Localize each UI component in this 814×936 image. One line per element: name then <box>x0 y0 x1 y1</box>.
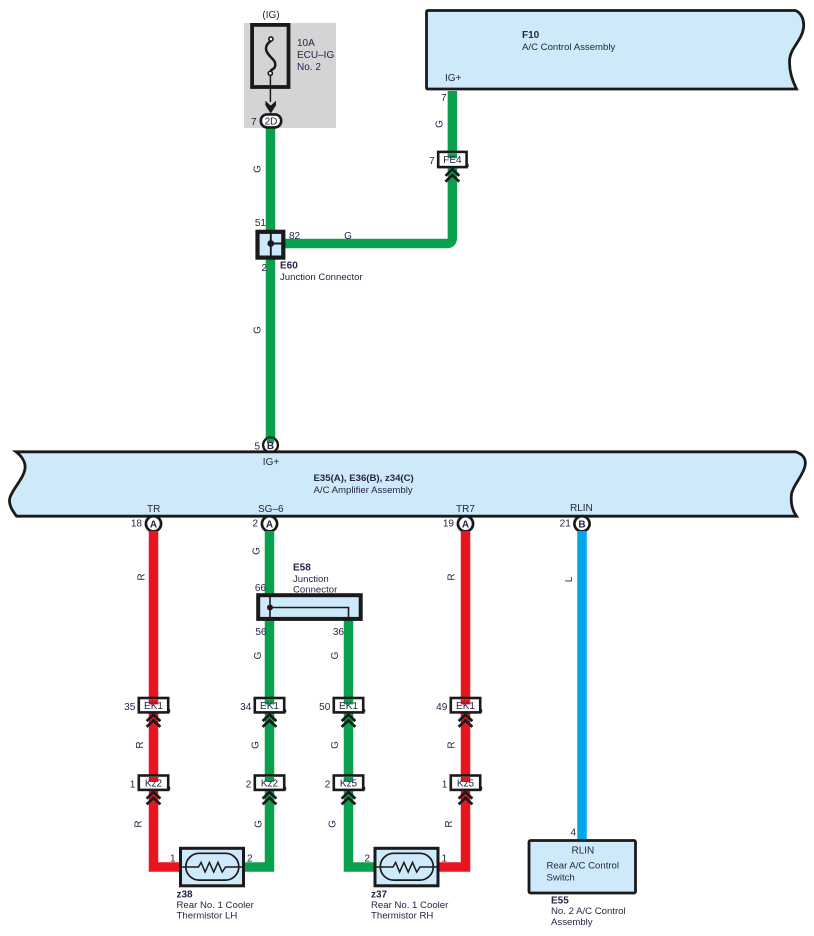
junction connector E58 <box>258 595 361 619</box>
svg-text:G: G <box>253 326 264 334</box>
wire label R (to z37) <box>444 820 455 827</box>
connector 2D pin 7 <box>251 114 281 128</box>
svg-text:FE4: FE4 <box>443 155 462 166</box>
svg-text:B: B <box>578 519 585 530</box>
svg-text:66: 66 <box>255 583 267 594</box>
wire label G (pin36 run lower) <box>330 651 341 659</box>
svg-text:2D: 2D <box>265 116 278 127</box>
wire: red TR7 pin19 down to thermistor z37 pin1 <box>439 531 466 867</box>
svg-text:18: 18 <box>131 518 143 529</box>
E58 pin 36 <box>333 627 345 638</box>
connector EK1 pin 49 <box>436 698 482 713</box>
svg-text:R: R <box>135 741 146 748</box>
connector Kz5 pin 1 <box>442 776 482 791</box>
F10 pin 7 <box>441 93 447 104</box>
svg-text:RLIN: RLIN <box>572 846 595 857</box>
z37 label <box>371 889 449 921</box>
svg-text:IG+: IG+ <box>445 73 462 84</box>
wire: blue RLIN pin21 down to E55 pin4 <box>577 531 587 841</box>
svg-text:1: 1 <box>442 854 448 865</box>
svg-text:7: 7 <box>441 93 447 104</box>
fuse ECU-IG No.2 <box>252 25 288 87</box>
chevron under EK1-34 <box>263 715 277 727</box>
E55 pin 4 <box>570 828 576 839</box>
junction connector E60 <box>258 232 284 258</box>
svg-text:50: 50 <box>319 702 331 713</box>
svg-text:E55: E55 <box>551 895 569 906</box>
svg-text:7: 7 <box>251 117 257 128</box>
wire label G (pin2 run upper) <box>252 547 263 555</box>
svg-text:No. 2: No. 2 <box>297 62 321 73</box>
svg-text:ECU–IG: ECU–IG <box>297 50 334 61</box>
svg-text:G: G <box>344 231 352 242</box>
svg-text:No. 2 A/C Control: No. 2 A/C Control <box>551 906 626 917</box>
svg-text:A: A <box>150 519 157 530</box>
chevron under EK1-49 <box>459 715 473 727</box>
amplifier pin 21 <box>560 518 572 529</box>
z37 pin 2 <box>364 854 370 865</box>
svg-text:Rear A/C Control: Rear A/C Control <box>547 861 620 872</box>
amplifier pin 5 <box>254 442 260 453</box>
connector EK1 pin 35 <box>124 698 170 713</box>
svg-text:R: R <box>444 820 455 827</box>
connector circle A (pin 2) <box>262 516 277 531</box>
chevron under Kz2-1 <box>147 792 161 804</box>
wire label G (pin34-Kz2 run) <box>251 741 262 749</box>
wire label R (pin49-Kz5 run) <box>447 741 458 748</box>
wire label G (pin50-Kz5 run) <box>330 741 341 749</box>
E58 label <box>293 563 338 596</box>
connector circle A (pin 19) <box>458 516 473 531</box>
svg-text:IG+: IG+ <box>263 457 280 468</box>
wire label G (left vertical) <box>253 165 264 173</box>
wire: thin lead from fuse to arrow <box>269 76 271 103</box>
svg-text:L: L <box>564 576 575 582</box>
wire label G (to z37) <box>328 820 339 828</box>
svg-text:R: R <box>134 820 145 827</box>
chevron under Kz5-1 <box>459 792 473 804</box>
svg-text:EK1: EK1 <box>144 701 163 712</box>
svg-text:G: G <box>254 820 265 828</box>
svg-text:Rear No. 1 Cooler: Rear No. 1 Cooler <box>177 900 255 911</box>
arrow into connector 2D <box>265 101 276 114</box>
svg-text:2: 2 <box>252 518 258 529</box>
svg-text:34: 34 <box>240 702 252 713</box>
svg-text:1: 1 <box>130 780 136 791</box>
svg-text:Thermistor LH: Thermistor LH <box>177 911 238 922</box>
svg-text:G: G <box>252 547 263 555</box>
svg-text:56: 56 <box>255 627 267 638</box>
svg-text:A/C Amplifier Assembly: A/C Amplifier Assembly <box>314 485 413 496</box>
chevron under EK1-35 <box>147 715 161 727</box>
svg-text:2: 2 <box>325 780 331 791</box>
connector circle B (pin 21) <box>574 516 589 531</box>
svg-text:R: R <box>137 573 148 580</box>
chevron under FE4-7 <box>446 169 460 181</box>
svg-text:Rear No. 1 Cooler: Rear No. 1 Cooler <box>371 900 449 911</box>
wire label R (pin19 run upper) <box>447 573 458 580</box>
E60 pin 82 <box>289 231 301 242</box>
svg-text:4: 4 <box>570 828 576 839</box>
wire label G (below E60) <box>253 326 264 334</box>
svg-text:R: R <box>447 573 458 580</box>
svg-text:G: G <box>435 120 446 128</box>
switch E55 Rear A/C Control Switch <box>529 841 636 894</box>
fuse label (IG) <box>262 10 279 21</box>
connector EK1 pin 34 <box>240 698 286 713</box>
svg-text:35: 35 <box>124 702 136 713</box>
svg-text:Kz2: Kz2 <box>261 778 279 789</box>
svg-text:Kz5: Kz5 <box>340 778 358 789</box>
svg-text:EK1: EK1 <box>456 701 475 712</box>
svg-text:36: 36 <box>333 627 345 638</box>
svg-text:G: G <box>251 741 262 749</box>
F10 A/C Control Assembly box <box>427 11 804 90</box>
connector EK1 pin 50 <box>319 698 365 713</box>
A/C Amplifier Assembly band <box>9 452 805 516</box>
E58 pin 66 <box>255 583 267 594</box>
z38 pin 2 <box>247 854 253 865</box>
svg-text:1: 1 <box>170 854 176 865</box>
svg-text:G: G <box>330 651 341 659</box>
connector FE4 pin 7 <box>429 152 468 167</box>
wire label R (to z38) <box>134 820 145 827</box>
fuse value 10A ECU-IG No. 2 <box>297 38 334 73</box>
z38 pin 1 <box>170 854 176 865</box>
connector Kz5 pin 2 <box>325 776 365 791</box>
svg-text:EK1: EK1 <box>339 701 358 712</box>
wire: green from E60 right and up to F10 pin 7 <box>284 91 452 244</box>
svg-text:z38: z38 <box>177 889 194 900</box>
wire label R (pin18 run upper) <box>137 573 148 580</box>
svg-text:G: G <box>253 651 264 659</box>
svg-text:19: 19 <box>443 518 455 529</box>
svg-text:A: A <box>266 519 273 530</box>
E60 pin 51 <box>255 218 267 229</box>
svg-text:Thermistor RH: Thermistor RH <box>371 911 433 922</box>
svg-text:2: 2 <box>247 854 253 865</box>
wire label G (right vertical) <box>435 120 446 128</box>
chevron under Kz2-2 <box>263 792 277 804</box>
svg-text:2: 2 <box>364 854 370 865</box>
wire label G (to z38) <box>254 820 265 828</box>
svg-text:EK1: EK1 <box>260 701 279 712</box>
svg-text:51: 51 <box>255 218 267 229</box>
chevron under EK1-50 <box>342 715 356 727</box>
connector circle B (pin 5) <box>263 438 278 453</box>
z38 label <box>177 889 255 921</box>
svg-text:Kz5: Kz5 <box>457 778 475 789</box>
chevron under Kz5-2 <box>342 792 356 804</box>
svg-text:G: G <box>330 741 341 749</box>
wire label R (pin35-Kz2 run) <box>135 741 146 748</box>
wire label L (RLIN run) <box>564 576 575 582</box>
svg-text:7: 7 <box>429 156 435 167</box>
wire: green vertical from 2D connector to E60 <box>266 126 276 232</box>
thermistor z38 <box>180 848 245 886</box>
svg-text:G: G <box>328 820 339 828</box>
wire label G (pin2 run lower) <box>253 651 264 659</box>
E60 label <box>280 260 363 283</box>
svg-text:49: 49 <box>436 702 448 713</box>
connector circle A (pin 18) <box>146 516 161 531</box>
svg-text:Switch: Switch <box>547 873 575 884</box>
svg-text:E60: E60 <box>280 260 298 271</box>
wire: red TR pin18 down to thermistor z38 pin1 <box>154 531 182 867</box>
svg-text:Assembly: Assembly <box>551 917 593 928</box>
svg-text:10A: 10A <box>297 38 315 49</box>
svg-text:2: 2 <box>246 780 252 791</box>
fuse block shaded area <box>244 23 336 128</box>
amplifier pin 19 <box>443 518 455 529</box>
svg-text:82: 82 <box>289 231 301 242</box>
wire label G (horizontal E60 to FE4) <box>344 231 352 242</box>
svg-text:Junction: Junction <box>293 574 329 585</box>
wire: green E58 pin36 down to thermistor z37 pin2 <box>349 619 376 867</box>
svg-text:(IG): (IG) <box>262 10 279 21</box>
connector Kz2 pin 1 <box>130 776 170 791</box>
wire: green SG-6 pin2 down to thermistor z38 pin2 <box>245 531 270 867</box>
svg-text:z37: z37 <box>371 889 388 900</box>
thermistor z37 <box>374 848 439 886</box>
z37 pin 1 <box>442 854 448 865</box>
E60 pin 2 <box>261 263 267 274</box>
svg-text:SG–6: SG–6 <box>258 504 284 515</box>
svg-text:RLIN: RLIN <box>570 503 593 514</box>
svg-text:21: 21 <box>560 518 572 529</box>
svg-text:TR7: TR7 <box>456 504 475 515</box>
svg-text:G: G <box>253 165 264 173</box>
svg-text:A/C Control Assembly: A/C Control Assembly <box>522 42 616 53</box>
svg-text:R: R <box>447 741 458 748</box>
amplifier pin 2 <box>252 518 258 529</box>
wire: green vertical from E60 down to amplifier pin 5 B <box>266 257 276 441</box>
svg-text:2: 2 <box>261 263 267 274</box>
svg-text:E58: E58 <box>293 563 311 574</box>
svg-text:F10: F10 <box>522 30 540 41</box>
svg-text:A: A <box>462 519 469 530</box>
E55 label <box>551 895 626 928</box>
svg-text:TR: TR <box>147 504 160 515</box>
svg-text:E35(A), E36(B), z34(C): E35(A), E36(B), z34(C) <box>314 473 414 484</box>
amplifier pin 18 <box>131 518 143 529</box>
connector Kz2 pin 2 <box>246 776 286 791</box>
E58 pin 56 <box>255 627 267 638</box>
svg-text:1: 1 <box>442 780 448 791</box>
svg-text:Kz2: Kz2 <box>145 778 163 789</box>
svg-text:Junction Connector: Junction Connector <box>280 272 363 283</box>
